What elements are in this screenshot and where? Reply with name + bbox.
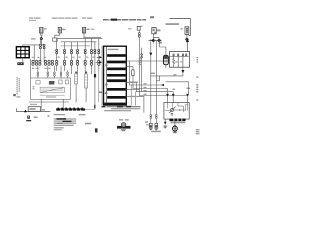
- wire from fuse block: [22, 58, 24, 62]
- connector box C1: [53, 38, 58, 41]
- wire mid bottom: [164, 119, 166, 122]
- connector pair chain1: [150, 115, 152, 119]
- wire drop d2: [64, 42, 66, 71]
- wire drop left a: [33, 45, 35, 62]
- ground mid: [164, 126, 167, 128]
- label 10A: [187, 88, 191, 89]
- wire relay to sender: [151, 74, 183, 76]
- inner lower line: [40, 94, 64, 96]
- wire stub down v2: [135, 92, 137, 106]
- label SW2: [62, 29, 65, 31]
- relay box right: [170, 52, 190, 68]
- inner text marks: [32, 86, 34, 87]
- legend row 1: [54, 114, 65, 115]
- sender black bar: [170, 119, 186, 122]
- bus label text: [83, 37, 101, 38]
- switch SW1: [40, 28, 44, 34]
- dark mark B: [95, 128, 98, 132]
- arrow left on a: [161, 84, 164, 87]
- wire label row: [31, 38, 36, 39]
- wire drop d5: [84, 39, 86, 74]
- title text segment 2: [52, 18, 78, 19]
- inner bottom text: [46, 96, 56, 97]
- title text left line 2: [29, 20, 36, 21]
- connector row group2: [44, 60, 53, 65]
- arrow into block 1: [97, 56, 100, 58]
- connector mark on b: [132, 70, 134, 76]
- block row text 11: [105, 64, 107, 66]
- fuse block J/B: [16, 47, 29, 58]
- wire drop d7: [94, 42, 96, 109]
- wires into amplifier box: [31, 59, 68, 81]
- wire below U1 right: [62, 99, 64, 108]
- label S5: [181, 28, 183, 29]
- label above C3: [30, 104, 37, 105]
- block row1 text: [108, 49, 119, 50]
- connector marks above R2: [85, 72, 87, 73]
- node connector A: [40, 38, 42, 40]
- wire block right c: [126, 83, 173, 94]
- ground L1: [149, 128, 152, 130]
- arrow into block 2: [96, 61, 100, 63]
- relay S4: [152, 28, 156, 34]
- wire block right a: [126, 60, 163, 62]
- wire top right feed: [170, 19, 190, 36]
- wire down right leg: [155, 40, 157, 123]
- text below block dark: [102, 106, 106, 108]
- top right bus: [149, 39, 161, 41]
- connector box C3: [28, 107, 40, 112]
- wire down from diode: [150, 56, 152, 123]
- component small L1: [149, 123, 152, 127]
- bus line 2: [61, 41, 96, 43]
- wire from SW1: [40, 33, 42, 35]
- connector strip black: [56, 108, 85, 110]
- tick left of block: [99, 92, 102, 93]
- connector left: [152, 40, 154, 42]
- wire from S5: [186, 34, 188, 38]
- terminal bar dark: [49, 81, 55, 85]
- title dark blob: [111, 19, 117, 21]
- label left of L1: [146, 124, 149, 125]
- wire drop left c: [43, 45, 45, 62]
- terminal rect c: [65, 80, 68, 84]
- ground line lower left: [29, 101, 68, 103]
- sender label: [171, 122, 186, 124]
- connector marks above R1: [75, 72, 77, 73]
- title text segment 3: [82, 18, 92, 19]
- title text right: [103, 19, 146, 21]
- connector circles row (bus drops): [56, 49, 100, 53]
- wire S4 bottom pin: [152, 34, 154, 38]
- ground under motor: [173, 132, 177, 133]
- legend row 4: [54, 123, 76, 124]
- arrow up on feed: [24, 110, 27, 113]
- arrow down mid: [164, 122, 167, 125]
- wire from SW2: [55, 33, 60, 38]
- dash label: [128, 27, 132, 30]
- capacitor / filter: [163, 55, 168, 64]
- label SW1: [44, 28, 47, 29]
- legend row 3: [54, 121, 76, 122]
- junction dot 2: [159, 39, 161, 41]
- wire drop d3: [71, 42, 73, 74]
- label SW3: [87, 29, 90, 30]
- resistor arrow: [41, 88, 63, 92]
- connector pair left: [141, 54, 143, 59]
- corner note text: [150, 16, 154, 18]
- stubs below: [152, 42, 154, 44]
- label under vtext: [13, 94, 16, 96]
- connector circles above amplifier: [37, 72, 69, 76]
- label near arrows: [150, 73, 155, 74]
- label right of block: [129, 82, 138, 83]
- resistor R2 hatched: [85, 74, 88, 88]
- relay S5: [185, 27, 189, 35]
- resistor R1 hatched: [75, 74, 78, 84]
- title text left line 1: [29, 18, 41, 19]
- fuel pump motor: [173, 126, 178, 131]
- drop wire labels: [58, 57, 95, 58]
- legend row 7: [54, 129, 62, 130]
- label 9: [27, 116, 30, 119]
- label 4: [160, 42, 162, 44]
- connector box C2: [137, 26, 140, 30]
- label on relay route: [173, 74, 176, 75]
- connector pairs on drops row2: [56, 60, 100, 65]
- connector blob on d7: [94, 74, 96, 77]
- component small L2: [155, 123, 158, 127]
- fuel sender box: [164, 103, 189, 120]
- wire upper feed right: [166, 82, 188, 94]
- connector circles left: [39, 44, 45, 49]
- wire at 141.7: [141, 48, 143, 92]
- wire stub down v1: [130, 85, 132, 105]
- connector right: [158, 40, 160, 42]
- block row text 14: [105, 92, 108, 94]
- connector below S5: [186, 38, 188, 40]
- wire block right b: [126, 67, 167, 94]
- connector row group1: [32, 60, 41, 65]
- legend row 6: [54, 127, 64, 128]
- switch SW2: [58, 27, 61, 33]
- legend black blob: [63, 121, 72, 123]
- arrow down sender 1: [166, 94, 169, 97]
- net label GAUGE: [166, 23, 180, 25]
- connector labels: [32, 57, 51, 69]
- wire below R1: [75, 84, 77, 102]
- junction feeder line: [23, 44, 44, 46]
- bits above washer motor: [119, 119, 123, 120]
- junction dot 1: [152, 39, 154, 41]
- terminal rect a: [36, 81, 40, 84]
- arrow below relay: [181, 70, 184, 74]
- wire drop d4: [77, 42, 79, 74]
- washer motor: [117, 126, 131, 129]
- wire block right d: [126, 88, 139, 90]
- label Y: [173, 89, 175, 90]
- bus line 1: [57, 38, 102, 40]
- feeder arrow up: [186, 39, 189, 42]
- ground L2: [155, 128, 158, 130]
- diode D1: [150, 40, 152, 52]
- terminal rect b: [59, 80, 62, 84]
- block row text 11b: [105, 84, 107, 86]
- bottom middle text row C: [104, 110, 131, 111]
- bottom feed line: [17, 109, 51, 112]
- sender rheostat circle: [170, 108, 173, 111]
- sender output line: [174, 109, 186, 111]
- wire from SW3: [83, 33, 85, 39]
- wire drop left b: [39, 39, 41, 62]
- side note: [85, 123, 91, 125]
- label right of block lower: [129, 96, 137, 97]
- rheostat coil marks: [171, 113, 173, 115]
- inner network box: [40, 87, 64, 93]
- label left of capacitor: [139, 58, 141, 65]
- connector pair chain2: [155, 115, 157, 119]
- label S4: [157, 30, 161, 32]
- right margin vertical text: [196, 57, 200, 134]
- wire below R2: [85, 88, 87, 102]
- small text near feed: [40, 109, 45, 110]
- wire below relay: [182, 67, 184, 70]
- bus line 3: [61, 45, 90, 47]
- wire below U1 left: [40, 99, 42, 108]
- rheostat arrow: [169, 107, 175, 113]
- label block J/B: [17, 62, 23, 65]
- ground text: [151, 131, 161, 133]
- wire to capacitor: [160, 40, 166, 55]
- legend row 2: [54, 118, 76, 119]
- branch wire: [153, 38, 159, 40]
- legend row 5: [54, 125, 74, 126]
- tiny text: [48, 115, 50, 117]
- switch SW3: [82, 28, 85, 34]
- wire color labels right: [144, 83, 147, 95]
- text right of 9: [34, 117, 38, 119]
- wire drop d6: [91, 39, 93, 74]
- sender internal wires: [165, 103, 188, 112]
- wire drop d8: [98, 39, 100, 71]
- arrow down sender 3: [186, 94, 189, 97]
- black bar under 9: [26, 120, 31, 121]
- wire drop d1: [56, 39, 58, 71]
- wire to motor: [174, 121, 176, 126]
- label C2: [140, 26, 142, 27]
- vertical label text: [16, 77, 20, 94]
- arrow down sender 2: [172, 94, 175, 97]
- ground washer: [121, 130, 125, 131]
- wire block right e: [126, 97, 144, 113]
- junction block center: [102, 46, 126, 105]
- amplifier box U1: [31, 78, 71, 99]
- text below block line2: [111, 108, 140, 109]
